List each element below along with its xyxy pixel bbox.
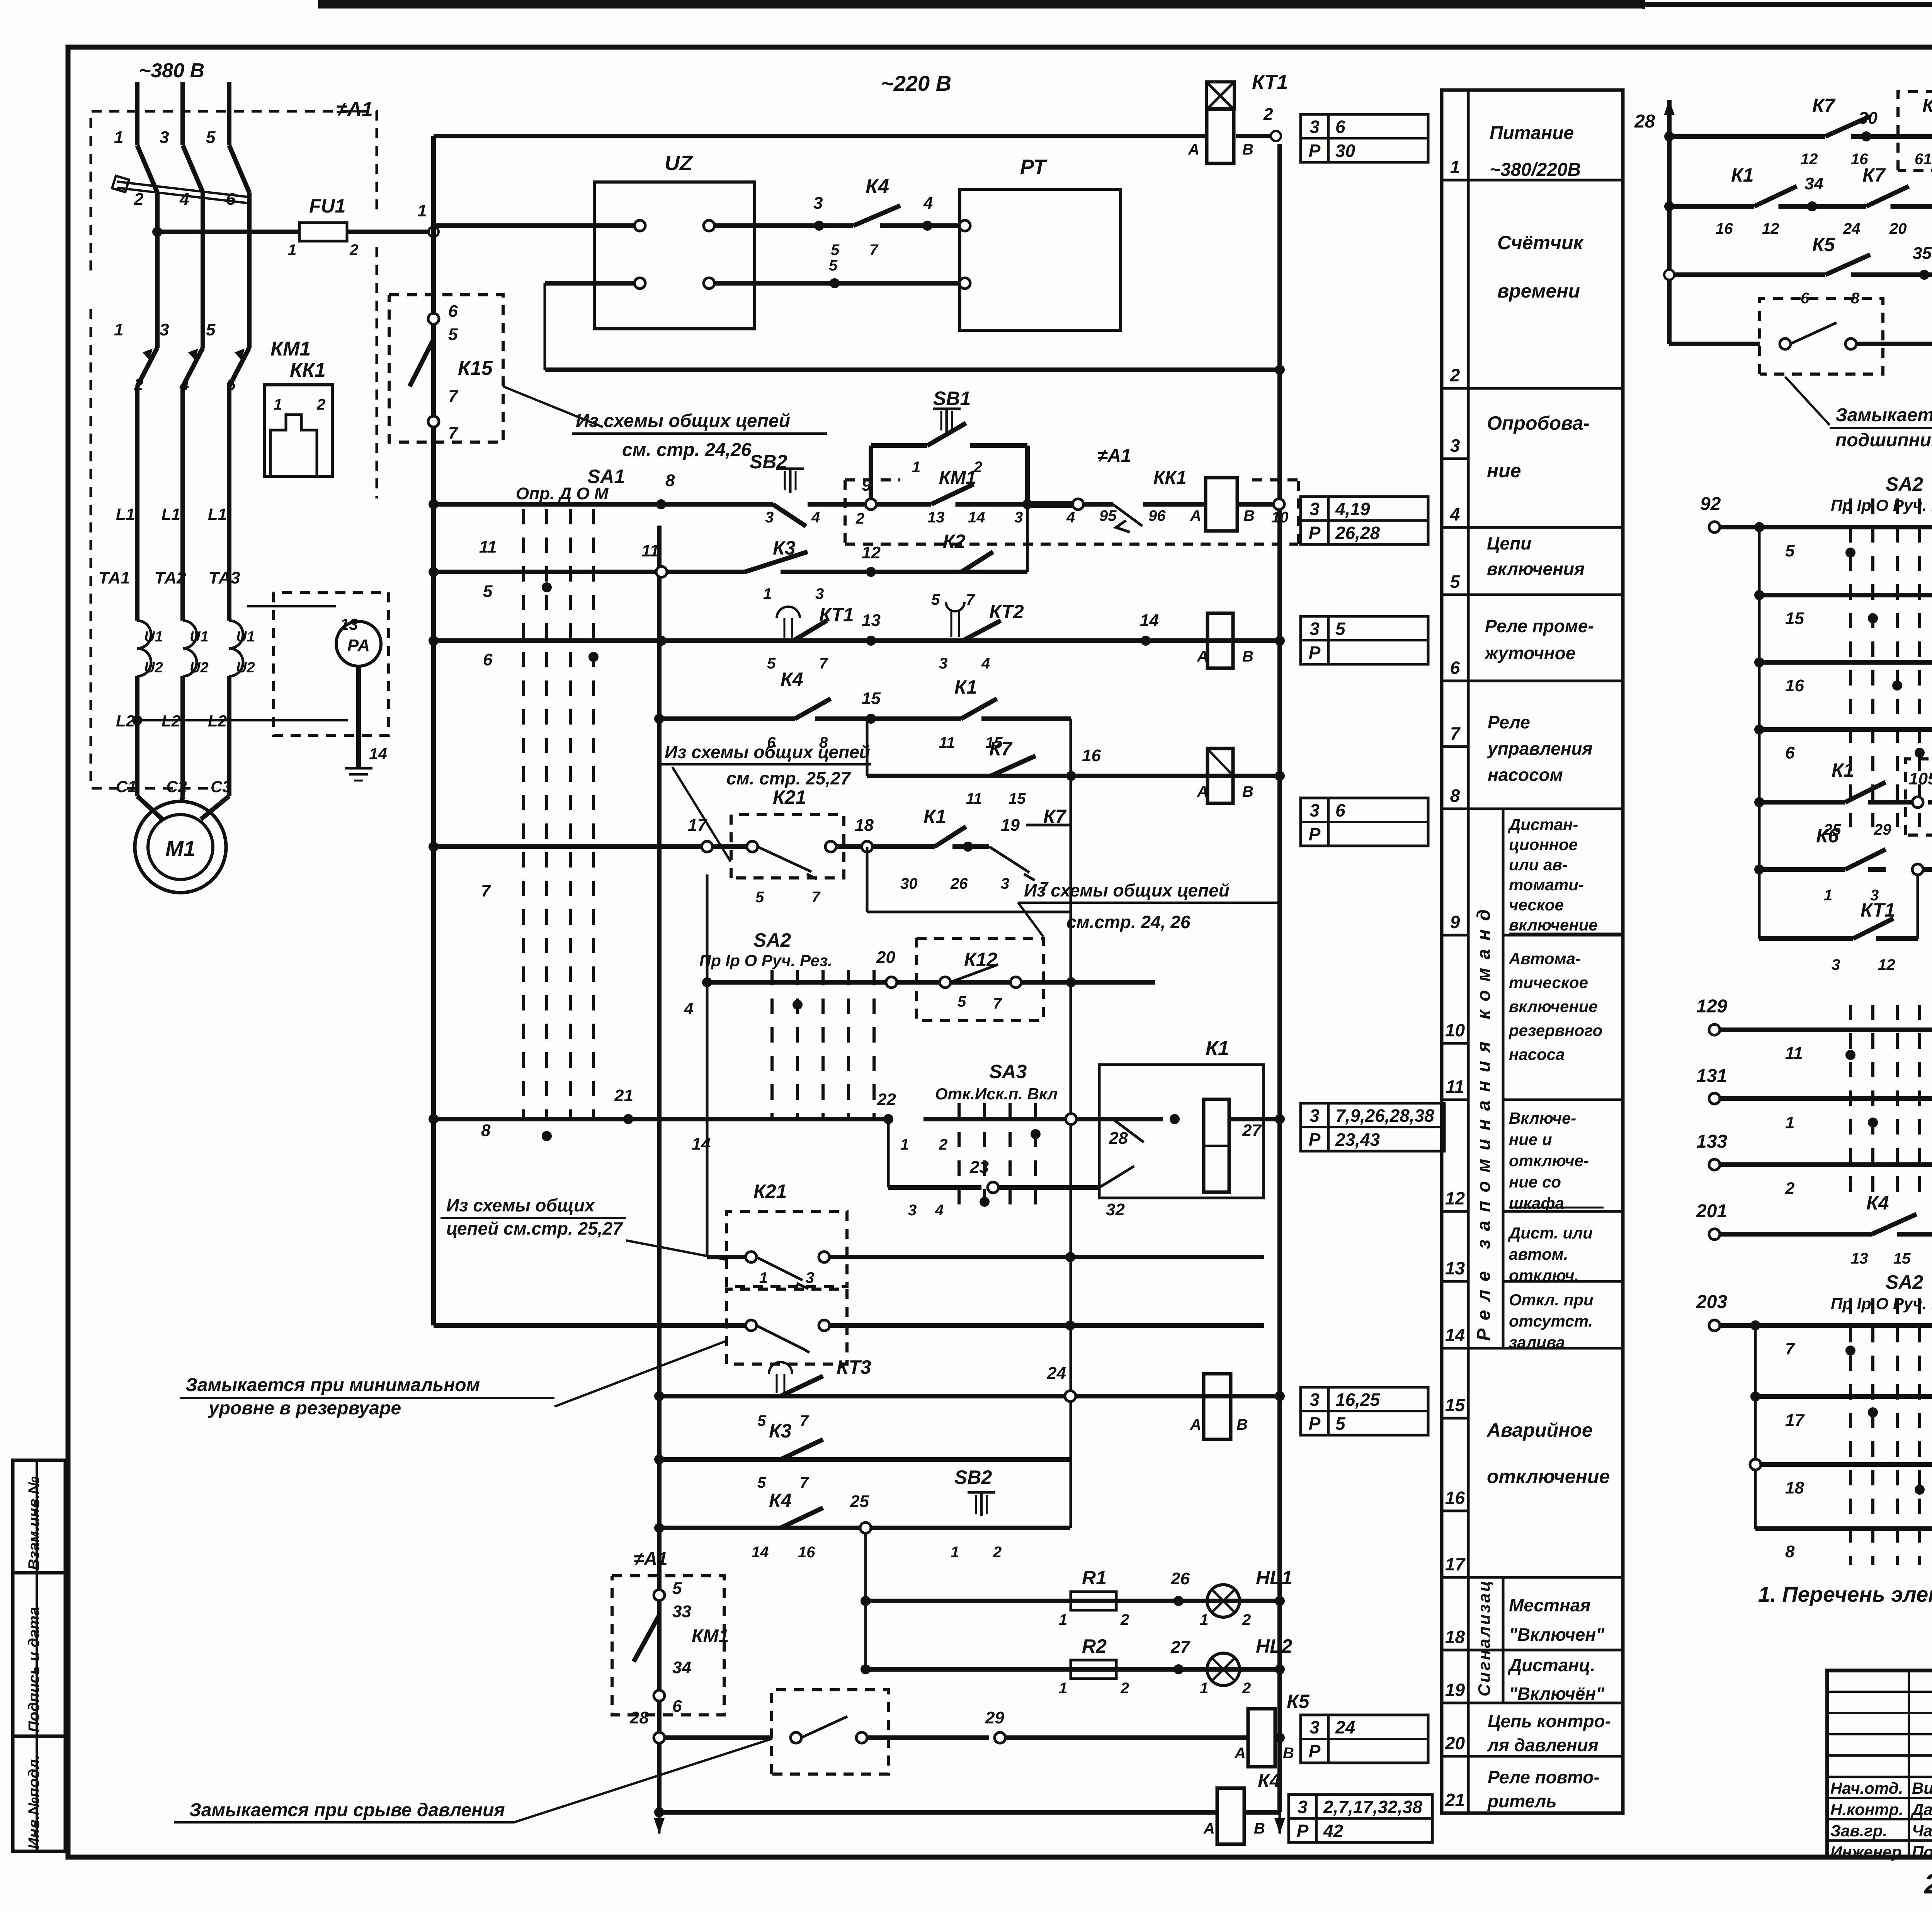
svg-text:Н.контр.: Н.контр. bbox=[1830, 1800, 1903, 1818]
svg-text:13: 13 bbox=[927, 509, 945, 526]
svg-text:UZ: UZ bbox=[665, 151, 693, 175]
svg-text:5: 5 bbox=[672, 1579, 682, 1598]
svg-text:28: 28 bbox=[629, 1708, 649, 1727]
svg-text:14: 14 bbox=[369, 745, 387, 763]
svg-text:U1: U1 bbox=[236, 629, 255, 645]
svg-text:включение: включение bbox=[1509, 997, 1598, 1016]
svg-text:автом.: автом. bbox=[1509, 1245, 1568, 1263]
svg-text:6: 6 bbox=[1335, 117, 1345, 137]
svg-text:3: 3 bbox=[1310, 1390, 1320, 1410]
svg-text:В: В bbox=[1254, 1820, 1265, 1837]
svg-text:7: 7 bbox=[481, 881, 492, 900]
svg-text:23,43: 23,43 bbox=[1335, 1130, 1380, 1150]
svg-text:27: 27 bbox=[1242, 1121, 1262, 1140]
svg-text:14: 14 bbox=[968, 509, 985, 526]
svg-text:5: 5 bbox=[1335, 619, 1346, 639]
svg-text:4: 4 bbox=[1066, 509, 1075, 526]
svg-text:2: 2 bbox=[316, 396, 325, 413]
svg-text:SA3: SA3 bbox=[989, 1061, 1027, 1082]
svg-text:3: 3 bbox=[806, 1269, 814, 1286]
svg-text:Опр. Д О М: Опр. Д О М bbox=[516, 484, 609, 503]
svg-text:Инженер: Инженер bbox=[1830, 1843, 1901, 1861]
svg-text:времени: времени bbox=[1497, 280, 1580, 302]
svg-text:4: 4 bbox=[935, 1202, 944, 1219]
svg-text:95: 95 bbox=[1099, 507, 1117, 524]
svg-text:А: А bbox=[1190, 507, 1201, 524]
svg-text:Подпись и дата: Подпись и дата bbox=[26, 1607, 43, 1732]
svg-text:А: А bbox=[1234, 1745, 1246, 1762]
svg-text:отсутст.: отсутст. bbox=[1509, 1312, 1593, 1330]
svg-text:42: 42 bbox=[1323, 1821, 1344, 1841]
svg-text:7: 7 bbox=[800, 1474, 809, 1491]
svg-text:К6: К6 bbox=[1816, 825, 1839, 847]
svg-text:3: 3 bbox=[1310, 800, 1320, 820]
svg-text:см. стр. 25,27: см. стр. 25,27 bbox=[726, 768, 851, 788]
svg-text:Подосёнова: Подосёнова bbox=[1912, 1843, 1932, 1861]
svg-text:Р: Р bbox=[1297, 1821, 1309, 1841]
svg-text:КТ2: КТ2 bbox=[989, 601, 1024, 623]
svg-text:15: 15 bbox=[862, 689, 881, 708]
svg-text:Местная: Местная bbox=[1509, 1595, 1590, 1615]
svg-text:12: 12 bbox=[1762, 220, 1779, 237]
svg-text:РТ: РТ bbox=[1020, 155, 1048, 179]
svg-text:ритель: ритель bbox=[1487, 1791, 1557, 1811]
svg-text:HL1: HL1 bbox=[1256, 1567, 1292, 1589]
svg-text:4: 4 bbox=[981, 655, 990, 672]
svg-text:Дистан-: Дистан- bbox=[1508, 815, 1578, 834]
svg-text:Вишневский: Вишневский bbox=[1912, 1779, 1932, 1797]
svg-text:6: 6 bbox=[1785, 743, 1795, 762]
svg-text:3: 3 bbox=[1014, 509, 1023, 526]
svg-text:жуточное: жуточное bbox=[1484, 643, 1575, 663]
svg-text:16: 16 bbox=[1785, 676, 1804, 695]
svg-text:РА: РА bbox=[347, 636, 370, 655]
svg-text:Нач.отд.: Нач.отд. bbox=[1830, 1779, 1903, 1797]
svg-text:30: 30 bbox=[1859, 109, 1878, 128]
svg-text:ние и: ние и bbox=[1509, 1130, 1552, 1148]
svg-text:34: 34 bbox=[672, 1658, 691, 1677]
svg-text:Пр Iр О Руч. Рез.: Пр Iр О Руч. Рез. bbox=[699, 951, 832, 970]
svg-text:КТ1: КТ1 bbox=[1252, 71, 1288, 94]
svg-text:К4: К4 bbox=[1866, 1192, 1889, 1214]
svg-text:10: 10 bbox=[1271, 509, 1289, 526]
svg-text:25379-02: 25379-02 bbox=[1923, 1869, 1932, 1900]
svg-text:11: 11 bbox=[1446, 1077, 1464, 1097]
svg-text:тическое: тическое bbox=[1509, 973, 1588, 992]
svg-text:К1: К1 bbox=[1731, 164, 1754, 186]
svg-text:HL2: HL2 bbox=[1256, 1635, 1293, 1657]
svg-text:U1: U1 bbox=[190, 629, 209, 645]
svg-text:23: 23 bbox=[969, 1158, 989, 1177]
svg-text:1: 1 bbox=[288, 242, 296, 259]
svg-text:14: 14 bbox=[1140, 611, 1159, 630]
svg-text:КК1: КК1 bbox=[290, 359, 326, 381]
svg-text:5: 5 bbox=[757, 1474, 766, 1491]
svg-text:96: 96 bbox=[1148, 507, 1166, 524]
svg-text:7: 7 bbox=[1785, 1339, 1796, 1358]
svg-text:Цепи: Цепи bbox=[1487, 533, 1531, 553]
svg-text:1: 1 bbox=[759, 1269, 768, 1286]
svg-text:1: 1 bbox=[1200, 1680, 1208, 1697]
svg-text:Чаруева: Чаруева bbox=[1912, 1822, 1932, 1840]
svg-text:В: В bbox=[1243, 507, 1255, 524]
svg-text:SB2: SB2 bbox=[954, 1466, 992, 1488]
svg-text:1: 1 bbox=[1785, 1113, 1794, 1132]
svg-text:3: 3 bbox=[1310, 1106, 1320, 1126]
svg-text:7: 7 bbox=[869, 242, 879, 259]
svg-text:12: 12 bbox=[1878, 956, 1895, 973]
svg-text:19: 19 bbox=[1001, 816, 1020, 835]
svg-text:2,7,17,32,38: 2,7,17,32,38 bbox=[1323, 1797, 1422, 1817]
svg-text:5: 5 bbox=[448, 325, 458, 344]
svg-text:КМ1: КМ1 bbox=[939, 468, 976, 488]
svg-text:Замыкается при срыве давления: Замыкается при срыве давления bbox=[189, 1800, 505, 1820]
svg-text:30: 30 bbox=[1335, 141, 1355, 161]
svg-text:28: 28 bbox=[1634, 111, 1655, 132]
svg-text:5: 5 bbox=[767, 655, 776, 672]
svg-text:129: 129 bbox=[1696, 996, 1727, 1017]
svg-text:5: 5 bbox=[757, 1412, 766, 1429]
svg-text:4: 4 bbox=[684, 999, 693, 1018]
svg-text:К7: К7 bbox=[1812, 95, 1836, 116]
svg-text:Реле запоминания команд: Реле запоминания команд bbox=[1474, 901, 1494, 1341]
svg-text:5: 5 bbox=[483, 582, 493, 601]
svg-text:2: 2 bbox=[1242, 1611, 1251, 1628]
svg-text:12: 12 bbox=[862, 543, 881, 562]
svg-text:Инв.№подл.: Инв.№подл. bbox=[26, 1755, 43, 1849]
svg-text:18: 18 bbox=[855, 816, 874, 835]
svg-text:ние со: ние со bbox=[1509, 1173, 1561, 1191]
svg-text:"Включён": "Включён" bbox=[1509, 1684, 1605, 1704]
svg-text:Пр Iр О Руч. Рез.: Пр Iр О Руч. Рез. bbox=[1831, 1295, 1932, 1313]
svg-text:см.стр. 24, 26: см.стр. 24, 26 bbox=[1066, 912, 1190, 932]
svg-text:14: 14 bbox=[1445, 1325, 1465, 1345]
svg-text:34: 34 bbox=[1804, 174, 1823, 193]
svg-text:3: 3 bbox=[1310, 117, 1320, 137]
svg-text:В: В bbox=[1242, 783, 1253, 800]
svg-text:19: 19 bbox=[1445, 1680, 1465, 1700]
svg-text:133: 133 bbox=[1696, 1131, 1727, 1152]
svg-text:2: 2 bbox=[1120, 1611, 1129, 1628]
svg-text:С2: С2 bbox=[166, 777, 187, 796]
svg-text:К1: К1 bbox=[923, 806, 946, 827]
svg-text:6: 6 bbox=[226, 190, 236, 209]
svg-text:11: 11 bbox=[966, 790, 982, 807]
svg-text:В: В bbox=[1283, 1745, 1294, 1762]
svg-text:Р: Р bbox=[1309, 824, 1321, 844]
svg-text:2: 2 bbox=[134, 190, 144, 209]
svg-text:А: А bbox=[1197, 783, 1208, 800]
svg-text:2: 2 bbox=[1450, 365, 1460, 385]
svg-text:12: 12 bbox=[1445, 1188, 1465, 1208]
svg-text:С1: С1 bbox=[116, 777, 137, 796]
svg-text:управления: управления bbox=[1487, 738, 1593, 759]
svg-text:4: 4 bbox=[1450, 504, 1460, 524]
svg-text:Дист. или: Дист. или bbox=[1508, 1224, 1593, 1242]
svg-text:К21: К21 bbox=[753, 1181, 787, 1202]
svg-text:4: 4 bbox=[811, 509, 820, 526]
svg-text:≠А1: ≠А1 bbox=[634, 1549, 668, 1569]
svg-text:2: 2 bbox=[1242, 1680, 1251, 1697]
svg-text:U1: U1 bbox=[144, 629, 163, 645]
svg-text:30: 30 bbox=[900, 875, 918, 892]
svg-text:4: 4 bbox=[179, 190, 189, 209]
svg-text:Из схемы общих: Из схемы общих bbox=[446, 1195, 595, 1215]
svg-text:томати-: томати- bbox=[1509, 876, 1584, 894]
svg-text:L2: L2 bbox=[116, 712, 135, 730]
svg-text:Включе-: Включе- bbox=[1509, 1109, 1576, 1127]
svg-text:К5: К5 bbox=[1287, 1691, 1310, 1712]
svg-text:ние: ние bbox=[1487, 460, 1521, 481]
svg-text:3: 3 bbox=[813, 194, 823, 213]
svg-text:21: 21 bbox=[614, 1086, 633, 1105]
svg-text:2: 2 bbox=[1785, 1179, 1795, 1198]
svg-text:Питание: Питание bbox=[1490, 123, 1574, 143]
svg-text:1: 1 bbox=[114, 320, 123, 339]
svg-text:3: 3 bbox=[160, 320, 169, 339]
svg-text:К2: К2 bbox=[943, 531, 966, 552]
svg-text:24: 24 bbox=[1843, 220, 1861, 237]
svg-text:ТА2: ТА2 bbox=[155, 568, 186, 587]
svg-text:4: 4 bbox=[923, 194, 933, 213]
svg-text:15: 15 bbox=[1893, 1250, 1911, 1267]
svg-text:~380/220В: ~380/220В bbox=[1490, 160, 1581, 180]
svg-text:Замыкается при перегреве: Замыкается при перегреве bbox=[1835, 405, 1932, 425]
svg-text:1. Перечень элементов и поясне: 1. Перечень элементов и пояснения к схем… bbox=[1758, 1582, 1932, 1606]
svg-text:Реле проме-: Реле проме- bbox=[1485, 616, 1594, 636]
svg-text:33: 33 bbox=[672, 1602, 691, 1621]
svg-text:Р: Р bbox=[1309, 643, 1321, 663]
svg-text:Из схемы общих цепей: Из схемы общих цепей bbox=[576, 411, 790, 431]
svg-text:5: 5 bbox=[206, 128, 216, 147]
svg-text:3: 3 bbox=[1310, 499, 1320, 519]
svg-text:13: 13 bbox=[340, 615, 358, 633]
svg-text:12: 12 bbox=[1801, 151, 1818, 168]
svg-text:11: 11 bbox=[1785, 1044, 1803, 1063]
svg-text:6: 6 bbox=[483, 650, 493, 669]
svg-text:2: 2 bbox=[1263, 105, 1273, 124]
svg-text:3: 3 bbox=[815, 585, 824, 602]
svg-text:16: 16 bbox=[1445, 1488, 1465, 1508]
svg-text:16: 16 bbox=[1082, 746, 1101, 765]
svg-text:SA2: SA2 bbox=[753, 929, 791, 951]
svg-text:1: 1 bbox=[951, 1544, 959, 1561]
svg-text:16,25: 16,25 bbox=[1335, 1390, 1381, 1410]
svg-text:Р: Р bbox=[1309, 1414, 1321, 1434]
svg-text:отключение: отключение bbox=[1487, 1466, 1610, 1487]
svg-text:К4: К4 bbox=[781, 669, 803, 690]
svg-text:R1: R1 bbox=[1082, 1567, 1107, 1589]
svg-text:22: 22 bbox=[877, 1090, 896, 1109]
svg-text:24: 24 bbox=[1335, 1717, 1355, 1737]
svg-text:5: 5 bbox=[206, 320, 216, 339]
svg-text:16: 16 bbox=[798, 1544, 815, 1561]
svg-text:1: 1 bbox=[900, 1136, 909, 1153]
svg-text:6: 6 bbox=[1450, 658, 1460, 678]
svg-text:К1: К1 bbox=[954, 676, 977, 698]
svg-text:131: 131 bbox=[1696, 1066, 1727, 1086]
svg-text:3: 3 bbox=[908, 1202, 917, 1219]
svg-text:К3: К3 bbox=[773, 537, 796, 559]
svg-text:201: 201 bbox=[1696, 1201, 1727, 1221]
svg-text:Отк.Иск.п. Вкл: Отк.Иск.п. Вкл bbox=[935, 1085, 1058, 1103]
svg-text:29: 29 bbox=[1874, 821, 1891, 838]
svg-text:U2: U2 bbox=[190, 660, 209, 676]
svg-text:FU1: FU1 bbox=[309, 195, 345, 217]
svg-text:3: 3 bbox=[939, 655, 947, 672]
svg-text:2: 2 bbox=[349, 242, 358, 259]
svg-text:К5: К5 bbox=[1812, 234, 1835, 255]
svg-text:20: 20 bbox=[1445, 1733, 1465, 1753]
svg-text:3: 3 bbox=[1298, 1797, 1308, 1817]
svg-text:1: 1 bbox=[1450, 157, 1460, 177]
svg-text:17: 17 bbox=[688, 816, 707, 835]
svg-text:17: 17 bbox=[1785, 1411, 1805, 1430]
svg-text:2: 2 bbox=[993, 1544, 1002, 1561]
svg-text:подшипников: подшипников bbox=[1835, 430, 1932, 451]
svg-text:14: 14 bbox=[752, 1544, 769, 1561]
svg-text:7: 7 bbox=[966, 591, 975, 608]
svg-text:1: 1 bbox=[274, 396, 282, 413]
svg-text:ля давления: ля давления bbox=[1487, 1735, 1599, 1755]
svg-text:цепей см.стр. 25,27: цепей см.стр. 25,27 bbox=[446, 1218, 623, 1238]
svg-text:ционное: ционное bbox=[1509, 835, 1578, 854]
svg-text:Откл. при: Откл. при bbox=[1509, 1291, 1594, 1309]
svg-text:U2: U2 bbox=[236, 660, 255, 676]
svg-text:7: 7 bbox=[448, 387, 459, 406]
svg-text:2: 2 bbox=[1120, 1680, 1129, 1697]
svg-text:1: 1 bbox=[417, 201, 427, 220]
svg-text:20: 20 bbox=[1889, 220, 1907, 237]
svg-text:1: 1 bbox=[1824, 887, 1832, 904]
svg-text:7: 7 bbox=[448, 424, 459, 442]
svg-text:13: 13 bbox=[1851, 1250, 1868, 1267]
svg-text:5: 5 bbox=[1785, 541, 1795, 560]
svg-text:ТА3: ТА3 bbox=[209, 568, 240, 587]
svg-text:11: 11 bbox=[479, 538, 497, 556]
svg-text:26: 26 bbox=[1170, 1569, 1190, 1588]
svg-text:насоса: насоса bbox=[1509, 1045, 1565, 1063]
svg-text:см. стр. 24,26: см. стр. 24,26 bbox=[622, 440, 752, 460]
svg-text:SA2: SA2 bbox=[1886, 1271, 1923, 1293]
svg-text:2: 2 bbox=[134, 375, 144, 394]
svg-text:уровне в резервуаре: уровне в резервуаре bbox=[208, 1398, 401, 1419]
svg-text:4: 4 bbox=[179, 375, 189, 394]
svg-text:203: 203 bbox=[1696, 1292, 1727, 1312]
svg-text:5: 5 bbox=[755, 889, 764, 906]
svg-text:К21: К21 bbox=[773, 786, 806, 808]
svg-text:отключ.: отключ. bbox=[1509, 1266, 1579, 1284]
svg-text:3: 3 bbox=[160, 128, 169, 147]
svg-text:3: 3 bbox=[1310, 1717, 1320, 1737]
svg-text:18: 18 bbox=[1785, 1478, 1804, 1497]
svg-text:А: А bbox=[1197, 648, 1208, 665]
svg-text:1: 1 bbox=[1059, 1680, 1067, 1697]
svg-text:А: А bbox=[1190, 1416, 1201, 1433]
svg-text:5: 5 bbox=[1335, 1414, 1346, 1434]
svg-text:35: 35 bbox=[1913, 244, 1932, 263]
svg-text:Замыкается при минимальном: Замыкается при минимальном bbox=[185, 1375, 480, 1395]
svg-text:15: 15 bbox=[1445, 1395, 1466, 1415]
svg-text:26,28: 26,28 bbox=[1335, 523, 1380, 543]
svg-text:7: 7 bbox=[800, 1412, 809, 1429]
svg-text:5: 5 bbox=[829, 257, 838, 274]
svg-text:6: 6 bbox=[1335, 800, 1345, 820]
svg-text:К4: К4 bbox=[769, 1490, 792, 1511]
svg-text:К4: К4 bbox=[866, 175, 889, 198]
svg-text:7: 7 bbox=[993, 995, 1002, 1012]
svg-text:15: 15 bbox=[1785, 609, 1804, 628]
svg-text:2: 2 bbox=[855, 510, 864, 527]
svg-text:16: 16 bbox=[1716, 220, 1733, 237]
svg-text:13: 13 bbox=[1445, 1258, 1465, 1278]
svg-text:8: 8 bbox=[481, 1121, 491, 1140]
svg-text:КМ1: КМ1 bbox=[1922, 96, 1932, 116]
svg-text:Реле: Реле bbox=[1488, 712, 1530, 732]
svg-text:Давлюнидзе: Давлюнидзе bbox=[1911, 1800, 1932, 1818]
svg-text:К3: К3 bbox=[769, 1420, 792, 1442]
svg-text:L1: L1 bbox=[208, 505, 227, 523]
svg-text:SB2: SB2 bbox=[750, 451, 787, 473]
svg-text:М1: М1 bbox=[165, 836, 196, 861]
svg-text:Пр Iр О Руч. Рез.: Пр Iр О Руч. Рез. bbox=[1831, 496, 1932, 514]
svg-text:Дистанц.: Дистанц. bbox=[1507, 1655, 1595, 1675]
svg-text:1: 1 bbox=[912, 459, 920, 476]
svg-text:"Включен": "Включен" bbox=[1509, 1625, 1605, 1645]
svg-text:ческое: ческое bbox=[1509, 896, 1564, 914]
svg-text:КМ1: КМ1 bbox=[692, 1626, 729, 1647]
svg-text:5: 5 bbox=[1450, 572, 1461, 592]
svg-text:~380 В: ~380 В bbox=[139, 60, 204, 82]
svg-text:КТ1: КТ1 bbox=[819, 604, 854, 626]
svg-text:Автома-: Автома- bbox=[1509, 949, 1581, 968]
svg-text:6: 6 bbox=[672, 1697, 682, 1716]
svg-text:92: 92 bbox=[1700, 494, 1721, 514]
svg-text:3: 3 bbox=[1310, 619, 1320, 639]
svg-text:13: 13 bbox=[862, 611, 881, 630]
svg-text:В: В bbox=[1236, 1416, 1248, 1433]
svg-text:17: 17 bbox=[1445, 1554, 1466, 1574]
svg-text:К1: К1 bbox=[1206, 1037, 1229, 1060]
svg-text:А: А bbox=[1188, 141, 1199, 158]
svg-text:Из схемы общих цепей: Из схемы общих цепей bbox=[665, 742, 870, 762]
svg-text:20: 20 bbox=[876, 948, 895, 967]
svg-text:Р: Р bbox=[1309, 523, 1321, 543]
svg-text:U2: U2 bbox=[144, 660, 163, 676]
svg-text:В: В bbox=[1242, 648, 1253, 665]
svg-text:насосом: насосом bbox=[1488, 765, 1563, 785]
svg-text:8: 8 bbox=[665, 471, 675, 490]
svg-text:КМ1: КМ1 bbox=[270, 338, 311, 360]
svg-text:3: 3 bbox=[1450, 435, 1460, 456]
svg-text:3: 3 bbox=[765, 509, 774, 526]
svg-text:К7: К7 bbox=[989, 738, 1013, 760]
svg-text:8: 8 bbox=[1450, 786, 1460, 806]
svg-text:5: 5 bbox=[957, 993, 966, 1010]
svg-text:отключе-: отключе- bbox=[1509, 1152, 1589, 1170]
svg-text:21: 21 bbox=[1445, 1790, 1465, 1810]
svg-text:105: 105 bbox=[1909, 769, 1932, 788]
svg-text:Реле повто-: Реле повто- bbox=[1488, 1767, 1600, 1787]
svg-text:Зав.гр.: Зав.гр. bbox=[1830, 1822, 1887, 1840]
svg-text:залива: залива bbox=[1509, 1333, 1565, 1351]
svg-text:8: 8 bbox=[1785, 1542, 1795, 1561]
svg-text:К7: К7 bbox=[1862, 164, 1886, 186]
svg-text:7,9,26,28,38: 7,9,26,28,38 bbox=[1335, 1106, 1434, 1126]
svg-text:28: 28 bbox=[1109, 1129, 1128, 1148]
svg-text:SA2: SA2 bbox=[1886, 473, 1923, 495]
svg-text:25: 25 bbox=[850, 1492, 869, 1511]
